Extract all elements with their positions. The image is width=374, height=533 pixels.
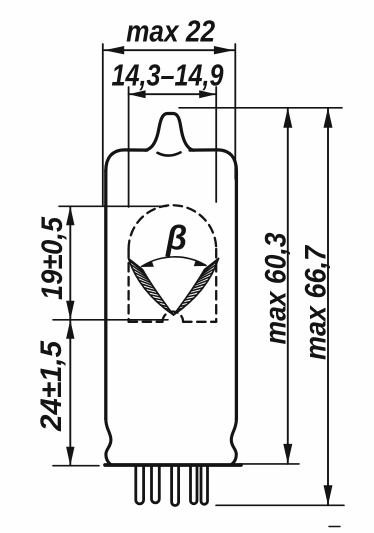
pin 2 — [152, 467, 160, 503]
dim 19 line — [69, 206, 71, 319]
electrode cage dashed right side — [215, 249, 217, 322]
svg-text:β: β — [165, 220, 187, 258]
envelope shoulder right corner — [190, 150, 236, 171]
dim max22 extension left — [102, 44, 104, 205]
arrowhead 60.3 bottom — [283, 444, 292, 464]
artifact tick bottom right — [329, 526, 340, 528]
shadow wedge left hatching — [129, 261, 172, 314]
arrowhead 60.3 top — [283, 108, 292, 128]
svg-text:14,3–14,9: 14,3–14,9 — [112, 58, 225, 93]
dim 19 extension top — [59, 205, 167, 207]
svg-text:max 60,3: max 60,3 — [260, 232, 293, 344]
dim 14.3 extension left — [128, 87, 130, 207]
envelope left bottom seal wave — [106, 419, 111, 465]
arrowhead beta arc right — [194, 260, 207, 266]
dim 14.3 line — [129, 93, 217, 95]
svg-text:24±1,5: 24±1,5 — [35, 340, 68, 432]
electrode cage dashed dome — [129, 205, 217, 249]
dim 60.3 bottom extension — [240, 463, 300, 465]
arrowhead max22 left — [104, 46, 124, 54]
dim 24 extension bottom — [53, 465, 99, 467]
arrowhead 14.3 left — [129, 90, 146, 98]
shadow wedge left outline — [129, 259, 174, 316]
arrowhead 24 bottom — [66, 447, 74, 466]
pin 1 — [136, 467, 144, 504]
envelope left wall — [104, 171, 107, 419]
dim max22 extension right — [234, 44, 236, 179]
electrode cage dashed left side — [127, 249, 129, 322]
dim 66.7 bottom extension — [216, 504, 344, 506]
envelope shoulder left corner — [106, 150, 147, 171]
angle beta arc — [142, 257, 207, 267]
electrode cage dashed bottom left — [129, 321, 163, 323]
exhaust tip — [146, 114, 194, 151]
shadow wedge left top edge — [129, 259, 141, 269]
shadow wedge right hatching — [175, 261, 218, 314]
arrowhead 66.7 top — [324, 108, 333, 128]
dim 24 line — [69, 320, 71, 466]
arrowhead 14.3 right — [199, 90, 216, 98]
arrowhead beta arc left — [141, 261, 154, 267]
arrowhead 24 top — [66, 320, 74, 339]
dim 19-24 shared extension — [53, 319, 168, 321]
arrowhead 66.7 bottom — [324, 485, 333, 505]
envelope right bottom seal wave — [231, 419, 236, 465]
arrowhead 19 bottom — [66, 301, 74, 320]
svg-text:19±0,5: 19±0,5 — [36, 216, 69, 300]
dim height top extension — [179, 107, 342, 109]
electrode cage dashed bottom bump — [163, 312, 184, 322]
tip inner seal arc — [158, 152, 181, 155]
electrode cage dashed bottom right — [183, 321, 216, 323]
shadow wedge right top edge — [207, 259, 219, 269]
svg-text:max 22: max 22 — [126, 14, 215, 49]
shadow wedge right outline — [174, 259, 219, 316]
dim 66.7 line — [327, 108, 329, 506]
pin 5 — [201, 467, 208, 505]
pin 3 — [172, 467, 179, 506]
dim max22 line — [104, 49, 234, 51]
base bottom line — [105, 463, 241, 467]
arrowhead max22 right — [214, 46, 234, 54]
arrowhead 19 top — [66, 206, 74, 225]
envelope right wall — [235, 171, 238, 419]
dim 60.3 line — [287, 108, 289, 464]
dim 14.3 extension right — [215, 87, 217, 202]
svg-text:max 66,7: max 66,7 — [300, 245, 333, 360]
pin 4 — [191, 467, 198, 504]
